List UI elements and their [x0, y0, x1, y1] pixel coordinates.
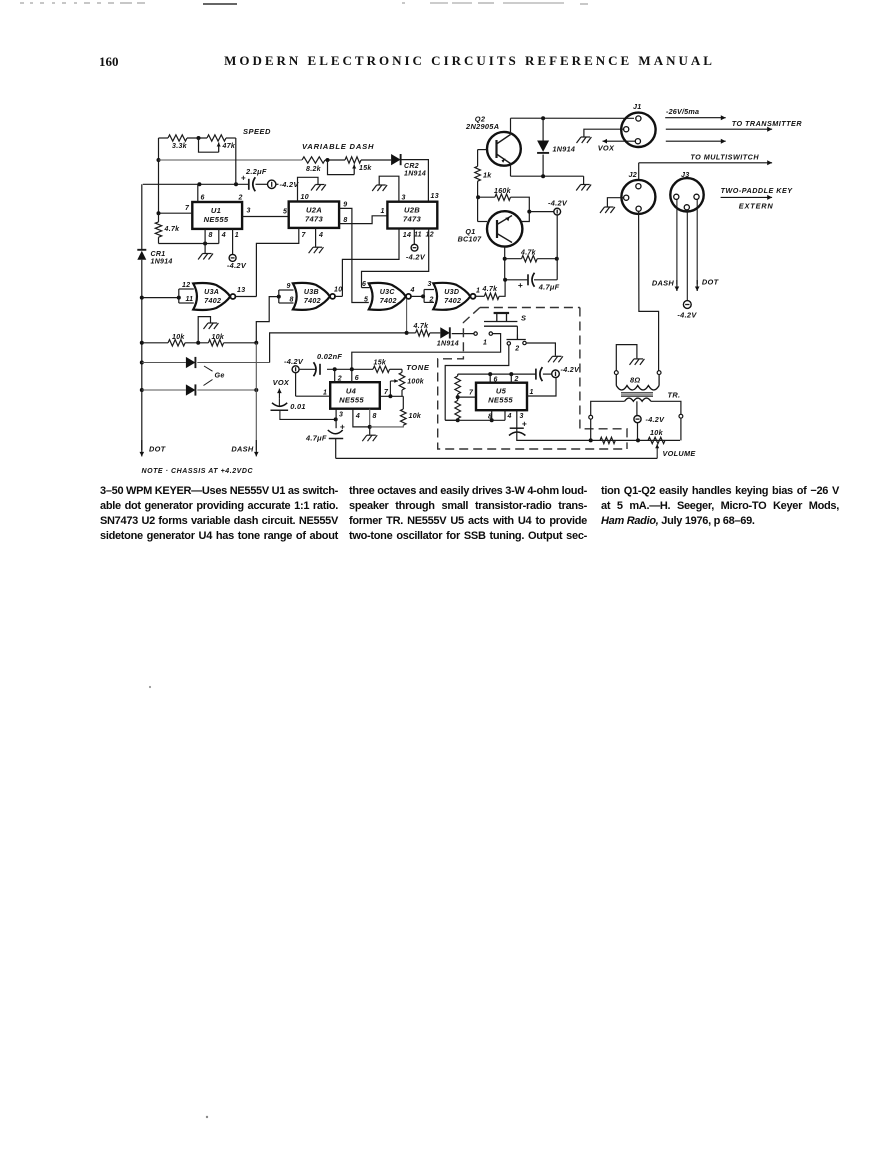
- svg-text:DASH: DASH: [652, 279, 675, 288]
- pin 1 battery -4.2V: [232, 229, 234, 255]
- wire left vertical: [158, 138, 160, 213]
- svg-text:U4: U4: [346, 387, 357, 396]
- svg-text:8: 8: [373, 413, 377, 420]
- svg-text:7: 7: [185, 205, 190, 212]
- right secondary terminal down: [680, 418, 682, 440]
- svg-text:1: 1: [530, 389, 534, 396]
- wire J2 to speaker: [639, 211, 659, 370]
- pin 8: [369, 409, 371, 427]
- wire Q1 collector: [522, 212, 530, 222]
- speaker terminals: [614, 371, 618, 375]
- U3C out down to 4.7k wire: [406, 299, 408, 333]
- svg-text:1N914: 1N914: [553, 145, 576, 154]
- svg-text:-4.2V: -4.2V: [561, 365, 581, 374]
- switch pos2 bar: [516, 326, 518, 334]
- wire 15k wiper: [328, 160, 355, 175]
- resistor 3.3k: [168, 135, 187, 141]
- wire Q2 emitter rail: [510, 164, 512, 177]
- diode 1N914 vox clamp: [542, 118, 544, 140]
- pin 8 stub: [491, 410, 493, 420]
- wire battery down: [556, 215, 558, 280]
- svg-text:TONE: TONE: [406, 363, 430, 372]
- diode CR2 1N914: [391, 154, 401, 165]
- wire DASH line: [255, 343, 257, 450]
- svg-text:7473: 7473: [305, 215, 324, 224]
- paper specks: [149, 686, 151, 688]
- svg-text:U1: U1: [211, 206, 221, 215]
- svg-text:-4.2V: -4.2V: [227, 261, 247, 270]
- svg-text:-4.2V: -4.2V: [548, 199, 568, 208]
- left secondary terminal down: [590, 419, 592, 440]
- svg-text:1: 1: [381, 208, 385, 215]
- wire Ge diode row 2: [142, 389, 186, 391]
- wire VOX arrow: [603, 140, 636, 142]
- ground U4: [369, 427, 371, 435]
- svg-text:14: 14: [403, 232, 411, 239]
- svg-text:-4.2V: -4.2V: [280, 180, 300, 189]
- pin 7 wire to U3A out: [256, 228, 298, 297]
- pin 3 stub: [516, 410, 518, 428]
- resistor 8.2k: [302, 157, 325, 163]
- wire to pins 2,6: [327, 368, 373, 370]
- svg-text:NE555: NE555: [204, 215, 229, 224]
- svg-text:Ge: Ge: [215, 371, 225, 380]
- svg-text:DOT: DOT: [702, 278, 720, 287]
- svg-text:1: 1: [476, 288, 480, 295]
- svg-text:15k: 15k: [374, 360, 387, 367]
- svg-text:4.7μF: 4.7μF: [538, 283, 560, 292]
- switch S pushbutton: [494, 312, 510, 314]
- battery -4.2V U5: [543, 373, 552, 375]
- svg-text:TO TRANSMITTER: TO TRANSMITTER: [732, 119, 803, 128]
- svg-text:TWO-PADDLE KEY: TWO-PADDLE KEY: [721, 186, 794, 195]
- pin 6: [197, 184, 199, 202]
- wire DASH arrow from J3: [676, 199, 678, 284]
- pin 14 wire to U3B out: [342, 229, 399, 297]
- svg-text:-4.2V: -4.2V: [406, 253, 426, 262]
- wire U1 pin3 to U2A pin5: [242, 216, 289, 218]
- svg-text:BC107: BC107: [458, 235, 483, 244]
- potentiometer 10k volume: [648, 437, 665, 443]
- wire 0.01 to pin3: [280, 410, 336, 419]
- svg-text:J1: J1: [633, 102, 642, 111]
- wire rail 184: [143, 183, 249, 185]
- U3B inputs: [256, 297, 279, 343]
- speaker hook ground: [616, 345, 637, 371]
- svg-text:5: 5: [364, 297, 368, 304]
- svg-text:DOT: DOT: [149, 445, 167, 454]
- IC U4 NE555: [330, 382, 380, 409]
- diode CR1 1N914: [141, 184, 143, 250]
- svg-text:0.01: 0.01: [290, 402, 306, 411]
- svg-text:3: 3: [339, 412, 343, 419]
- U3C output: [410, 295, 423, 297]
- svg-text:S: S: [521, 314, 526, 323]
- gate U3C 7402: [369, 283, 406, 310]
- switch contact 1: [474, 332, 477, 335]
- arrow to transmitter 2: [666, 128, 772, 130]
- svg-text:7402: 7402: [444, 297, 461, 305]
- wire top rail to J1: [511, 117, 635, 119]
- diode 1N914 keying: [440, 327, 450, 338]
- svg-text:TR.: TR.: [668, 391, 681, 400]
- wire U1 bottom: [159, 243, 219, 245]
- svg-text:NE555: NE555: [488, 396, 513, 405]
- svg-text:4.7k: 4.7k: [482, 286, 499, 293]
- gate U3B 7402: [293, 283, 330, 310]
- svg-text:6: 6: [362, 281, 366, 288]
- IC U2A 7473: [289, 202, 339, 228]
- arrow extern: [721, 196, 773, 198]
- svg-text:7473: 7473: [403, 215, 422, 224]
- pin 4: [353, 409, 370, 427]
- pin 7 wire: [380, 395, 404, 397]
- svg-text:47k: 47k: [222, 143, 236, 150]
- IC U5 NE555: [476, 383, 527, 411]
- wire variable-dash rail: [159, 159, 303, 161]
- svg-text:7: 7: [302, 232, 307, 239]
- center tap battery: [636, 401, 638, 415]
- arrow to transmitter 3: [666, 140, 726, 142]
- battery -4.2V Q1: [529, 211, 554, 213]
- wire 10k bottom to ground: [370, 425, 404, 427]
- wire volume long: [336, 457, 658, 459]
- svg-text:U3B: U3B: [304, 288, 319, 296]
- page title: [43, 53, 893, 69]
- wire Q1 base: [478, 221, 487, 223]
- svg-text:J2: J2: [629, 170, 638, 179]
- svg-text:VOLUME: VOLUME: [663, 449, 697, 458]
- svg-text:3.3k: 3.3k: [172, 143, 188, 150]
- svg-text:4.7k: 4.7k: [520, 250, 537, 257]
- svg-text:VARIABLE DASH: VARIABLE DASH: [302, 142, 374, 151]
- svg-text:10: 10: [334, 287, 342, 294]
- svg-text:1k: 1k: [483, 171, 492, 180]
- wire J2 left pin ground: [607, 198, 623, 207]
- resistor 10k U4: [402, 396, 404, 409]
- pin 9 wire down to U3C pin5: [339, 208, 369, 302]
- svg-text:4: 4: [221, 232, 226, 239]
- svg-text:2: 2: [429, 297, 434, 304]
- svg-text:10: 10: [301, 194, 309, 201]
- 100k wiper: [389, 381, 391, 396]
- wire U1 pin2 vertical: [235, 138, 237, 184]
- volume wiper: [656, 449, 658, 458]
- capacitor 0.02nF: [314, 362, 317, 376]
- svg-text:3: 3: [402, 195, 406, 202]
- secondary winding: [625, 398, 651, 401]
- pin 1 wire: [527, 378, 556, 396]
- resistor upper U5: [445, 419, 458, 421]
- capacitor 4.7uF: [534, 279, 557, 281]
- svg-text:4: 4: [318, 232, 323, 239]
- svg-text:3: 3: [428, 281, 432, 288]
- wire Ge diode row 1: [142, 362, 186, 364]
- svg-text:12: 12: [426, 232, 434, 239]
- diode Ge top: [186, 357, 196, 368]
- svg-text:4: 4: [507, 413, 512, 420]
- svg-text:U3A: U3A: [204, 288, 219, 296]
- wire DOT arrow from J3: [696, 199, 698, 284]
- pin 4 stub: [504, 410, 506, 420]
- svg-text:2: 2: [238, 195, 243, 202]
- svg-text:1: 1: [323, 390, 327, 397]
- svg-text:13: 13: [237, 287, 245, 294]
- caption column 3: [601, 484, 839, 529]
- svg-text:15k: 15k: [359, 165, 372, 172]
- page number 160: [99, 54, 119, 70]
- svg-text:2N2905A: 2N2905A: [465, 122, 499, 131]
- svg-text:6: 6: [201, 195, 205, 202]
- svg-text:7402: 7402: [304, 297, 321, 305]
- svg-text:U2B: U2B: [404, 206, 420, 215]
- ground U1 pin8: [204, 244, 206, 254]
- svg-text:7: 7: [469, 390, 474, 397]
- svg-text:1N914: 1N914: [437, 341, 459, 348]
- svg-text:EXTERN: EXTERN: [739, 202, 774, 211]
- svg-text:13: 13: [431, 193, 439, 200]
- ground hook 10k junction: [198, 317, 210, 343]
- svg-text:-4.2V: -4.2V: [646, 415, 666, 424]
- svg-text:-4.2V: -4.2V: [284, 357, 304, 366]
- transformer TR core: [621, 392, 653, 394]
- pin 8 wire to U2B pin1: [339, 216, 387, 224]
- resistor 4.7k: [158, 213, 160, 222]
- caption column 1: [100, 484, 338, 544]
- svg-text:8: 8: [209, 232, 213, 239]
- switch contact 2: [507, 342, 510, 345]
- U3D inputs: [421, 294, 425, 298]
- connector J3: [670, 178, 703, 211]
- pin 4: [218, 229, 220, 244]
- pin 8: [204, 229, 206, 244]
- svg-text:+: +: [522, 419, 527, 429]
- bottom rail U5: [445, 419, 505, 421]
- potentiometer 15k: [345, 157, 361, 163]
- primary winding: [615, 375, 617, 386]
- wire J3 mid to battery: [686, 210, 688, 301]
- pin 3 ground hook: [379, 176, 399, 202]
- svg-text:5: 5: [283, 209, 287, 216]
- resistor lower U5: [455, 401, 461, 419]
- U3C inputs: [362, 287, 370, 289]
- pin 6 stub: [489, 374, 491, 383]
- wire J1 mid pin ground: [584, 129, 624, 136]
- connector J1: [621, 113, 655, 147]
- wire jog up to 4.7k row: [270, 333, 407, 363]
- U3B output: [334, 295, 342, 297]
- wire Q2 collector to rail: [510, 118, 512, 134]
- IC U1 NE555: [192, 202, 242, 229]
- svg-text:4.7k: 4.7k: [164, 226, 181, 233]
- svg-text:SPEED: SPEED: [243, 127, 271, 136]
- svg-text:U3D: U3D: [444, 288, 459, 296]
- svg-text:U3C: U3C: [380, 288, 396, 296]
- svg-text:6: 6: [355, 375, 359, 382]
- resistor 4.7k keying: [407, 332, 416, 334]
- svg-text:12: 12: [182, 282, 190, 289]
- svg-text:8Ω: 8Ω: [630, 376, 640, 385]
- wire Q1 emitter: [504, 247, 506, 259]
- svg-text:J3: J3: [681, 170, 690, 179]
- svg-text:-26V/5ma: -26V/5ma: [666, 107, 699, 116]
- svg-text:2.2μF: 2.2μF: [245, 167, 267, 176]
- pin 10 ground hook: [298, 177, 319, 201]
- svg-text:2: 2: [514, 376, 519, 383]
- capacitor U5 supply: [535, 369, 537, 380]
- wire CR1 down / DOT line: [141, 260, 143, 450]
- potentiometer 100k: [401, 369, 403, 372]
- caption column 2: [349, 484, 587, 544]
- svg-text:8: 8: [290, 297, 294, 304]
- svg-text:DASH: DASH: [231, 445, 254, 454]
- svg-text:10k: 10k: [172, 334, 185, 341]
- svg-text:1N914: 1N914: [151, 259, 173, 266]
- dashed enclosure: [438, 308, 627, 450]
- pin7 wire: [458, 396, 476, 398]
- wire Q2 base + resistor 1k: [478, 149, 487, 151]
- svg-text:U2A: U2A: [306, 206, 322, 215]
- svg-text:8.2k: 8.2k: [306, 166, 322, 173]
- svg-text:4.7k: 4.7k: [413, 323, 430, 330]
- svg-text:4: 4: [410, 287, 415, 294]
- resistor 4.7k emitter: [505, 258, 522, 260]
- wire 10k rail: [142, 342, 168, 344]
- battery -4.2V: [256, 183, 268, 185]
- potentiometer 47k: [207, 135, 226, 141]
- pin 4 ground: [315, 228, 317, 247]
- resistor 15k tone: [373, 366, 390, 372]
- wire contact2a to U5 rail: [445, 345, 509, 420]
- pin 2 stub: [510, 374, 512, 383]
- scan artifacts top edge: [20, 2, 145, 4]
- svg-text:10k: 10k: [212, 334, 225, 341]
- gate U3D 7402: [433, 283, 470, 310]
- resistor 160k: [478, 196, 495, 198]
- pin 11 battery -4.2V: [413, 229, 415, 245]
- transistor Q1 BC107: [487, 211, 522, 246]
- svg-text:2: 2: [337, 376, 342, 383]
- svg-text:U5: U5: [496, 387, 507, 396]
- pin 2 stub: [334, 369, 336, 382]
- wire cap to volume line: [335, 439, 337, 459]
- capacitor U5 out: [510, 427, 524, 429]
- svg-text:NOTE · CHASSIS AT +4.2VDC: NOTE · CHASSIS AT +4.2VDC: [142, 468, 254, 475]
- svg-text:TO MULTISWITCH: TO MULTISWITCH: [690, 153, 759, 162]
- svg-text:2: 2: [514, 346, 519, 353]
- svg-text:7402: 7402: [204, 297, 221, 305]
- svg-text:3: 3: [247, 208, 251, 215]
- wire/arrow to multiswitch: [638, 163, 640, 180]
- pin 12 wire to U3C pin6: [362, 229, 429, 288]
- resistor 10k right: [208, 340, 223, 346]
- svg-text:0.02nF: 0.02nF: [317, 352, 342, 361]
- wire pins6/2 rail: [458, 373, 536, 375]
- svg-text:6: 6: [494, 377, 498, 384]
- svg-text:160k: 160k: [494, 188, 512, 195]
- wire contact2b ground: [526, 343, 555, 356]
- wire cap to transformer rail: [517, 428, 680, 440]
- svg-text:VOX: VOX: [598, 144, 615, 153]
- wire 47k wiper: [199, 138, 219, 152]
- svg-text:+: +: [518, 280, 523, 290]
- svg-text:NE555: NE555: [339, 396, 364, 405]
- secondary leads: [591, 401, 625, 415]
- svg-text:9: 9: [287, 283, 291, 290]
- diode Ge bottom: [186, 384, 196, 395]
- svg-text:VOX: VOX: [273, 378, 290, 387]
- transistor Q2 2N2905A: [487, 132, 521, 166]
- svg-text:-4.2V: -4.2V: [677, 311, 697, 320]
- wire top rail: [159, 137, 169, 139]
- svg-text:7: 7: [384, 389, 389, 396]
- connector J2: [621, 180, 655, 214]
- svg-text:11: 11: [186, 296, 194, 303]
- svg-text:4.7μF: 4.7μF: [305, 434, 327, 443]
- resistor series: [600, 437, 615, 443]
- svg-text:9: 9: [343, 202, 347, 209]
- svg-text:10k: 10k: [650, 428, 664, 437]
- svg-text:1: 1: [483, 340, 487, 347]
- pin 6 stub: [351, 369, 353, 382]
- gate U3A 7402: [193, 283, 230, 310]
- svg-text:1N914: 1N914: [404, 171, 426, 178]
- svg-text:11: 11: [414, 232, 422, 239]
- wire CR2 to U2B pin 13: [401, 160, 429, 202]
- svg-text:100k: 100k: [407, 379, 425, 386]
- U3A output: [235, 296, 257, 298]
- svg-text:8: 8: [343, 217, 347, 224]
- svg-text:7402: 7402: [380, 297, 397, 305]
- svg-text:CR2: CR2: [404, 163, 419, 170]
- IC U2B 7473: [387, 202, 437, 229]
- U3D output 4.7k: [475, 295, 485, 297]
- pin 3 stub: [335, 409, 337, 429]
- svg-text:10k: 10k: [409, 413, 422, 420]
- U3A inputs: [142, 297, 179, 299]
- svg-text:CR1: CR1: [151, 251, 166, 258]
- pin 1 wire: [295, 373, 297, 396]
- pin 7 wire: [159, 212, 193, 214]
- svg-text:1: 1: [235, 232, 239, 239]
- svg-text:4: 4: [355, 413, 360, 420]
- arrow to transmitter 1: [665, 117, 726, 119]
- wire contact1 to tone line: [352, 334, 501, 370]
- resistor 10k left: [168, 340, 185, 346]
